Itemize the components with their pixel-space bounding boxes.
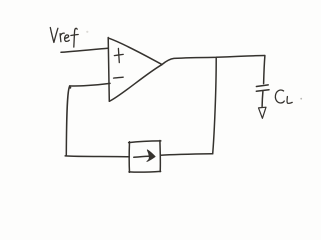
- smudge dot: [86, 31, 88, 33]
- wire feedback right vertical: [213, 57, 217, 153]
- wire op-amp output: [162, 56, 265, 65]
- capacitor CL top plate: [256, 85, 268, 87]
- wire bottom right: [161, 154, 213, 155]
- node Vref label: [50, 28, 78, 48]
- wire capacitor branch vertical: [264, 56, 265, 84]
- arrow in buffer box: [134, 150, 155, 162]
- wire bottom left: [65, 155, 129, 158]
- wire feedback left vertical: [66, 87, 69, 156]
- wire capacitor to ground: [261, 92, 264, 107]
- ground arrow: [259, 107, 267, 118]
- wire - input: [70, 83, 110, 86]
- op-amp U1: [108, 38, 162, 102]
- buffer box: [129, 141, 161, 173]
- label CL: [275, 90, 292, 103]
- pin +: [114, 48, 123, 62]
- wire Vref to + input: [61, 48, 108, 52]
- dot after CL: [300, 98, 302, 100]
- pin -: [114, 76, 124, 79]
- capacitor CL bottom plate: [256, 90, 269, 92]
